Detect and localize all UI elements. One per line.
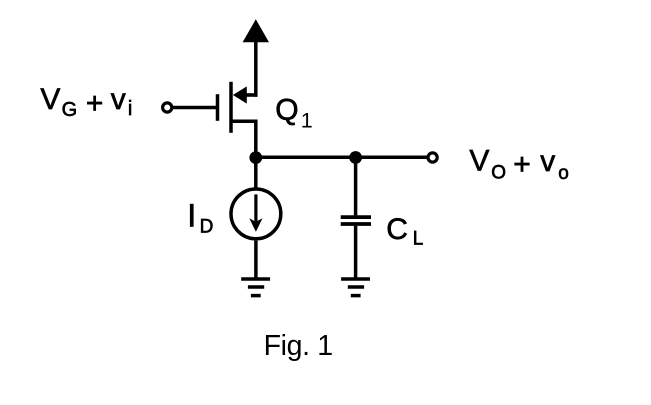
svg-text:V: V xyxy=(469,144,489,177)
svg-text:Fig. 1: Fig. 1 xyxy=(264,330,333,362)
svg-text:v: v xyxy=(540,145,555,178)
svg-text:Q: Q xyxy=(275,93,298,126)
svg-text:G: G xyxy=(62,99,78,121)
svg-text:+: + xyxy=(513,148,531,181)
svg-text:O: O xyxy=(491,163,506,184)
svg-text:V: V xyxy=(40,83,60,116)
svg-text:v: v xyxy=(111,83,126,116)
svg-text:i: i xyxy=(128,98,132,120)
svg-text:L: L xyxy=(413,228,424,249)
svg-text:+: + xyxy=(86,87,104,120)
svg-text:D: D xyxy=(200,216,214,237)
svg-text:o: o xyxy=(558,163,569,184)
svg-text:C: C xyxy=(386,213,408,246)
svg-text:1: 1 xyxy=(301,108,313,132)
